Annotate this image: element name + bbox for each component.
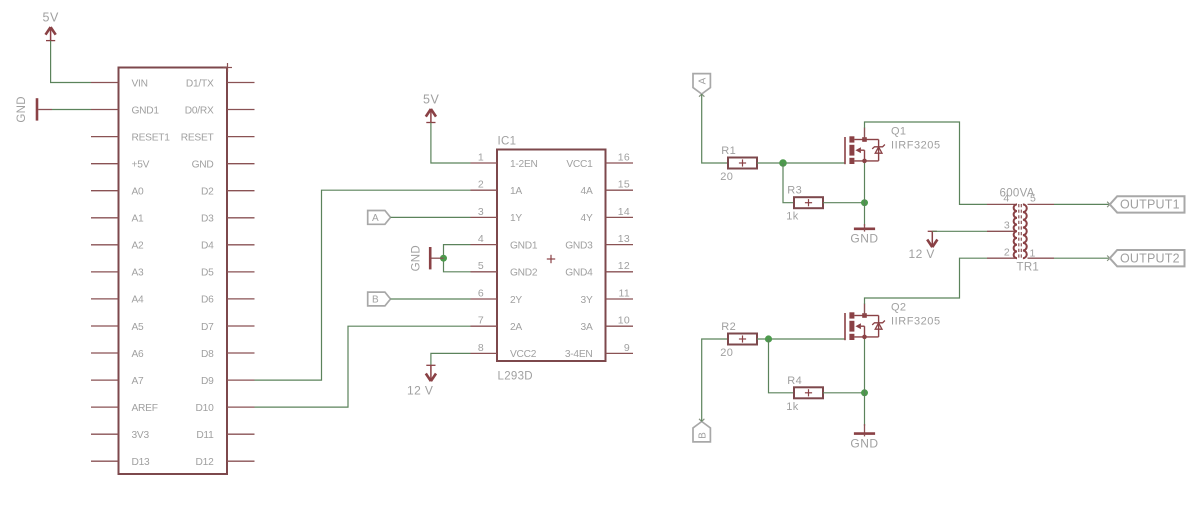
pin D9 stub bbox=[227, 379, 255, 381]
pin 16 stub bbox=[606, 162, 634, 164]
svg-text:B: B bbox=[372, 295, 379, 306]
transistor Q1 source link bbox=[854, 160, 878, 162]
svg-text:GND3: GND3 bbox=[565, 240, 593, 251]
svg-text:3Y: 3Y bbox=[581, 295, 593, 306]
junction (GND bracket) bbox=[440, 255, 447, 262]
svg-text:RESET1: RESET1 bbox=[132, 132, 171, 143]
svg-text:A0: A0 bbox=[132, 187, 145, 198]
wire B to 2Y bbox=[391, 298, 471, 300]
svg-text:600VA: 600VA bbox=[1000, 187, 1035, 199]
pin D11 stub bbox=[227, 433, 255, 435]
svg-text:4A: 4A bbox=[581, 186, 593, 197]
wire source Q1 down bbox=[864, 161, 866, 203]
svg-text:16: 16 bbox=[618, 151, 630, 163]
wire A to 1Y bbox=[391, 216, 471, 218]
wire GND1-GND2 bracket bbox=[444, 245, 471, 272]
svg-text:D12: D12 bbox=[196, 457, 215, 468]
pin D12 stub bbox=[227, 460, 255, 462]
pin D7 stub bbox=[227, 325, 255, 327]
transistor Q2 body arrow bbox=[855, 323, 861, 329]
svg-text:R3: R3 bbox=[787, 185, 802, 197]
svg-text:2: 2 bbox=[478, 179, 484, 191]
pin D13 stub bbox=[91, 460, 119, 462]
svg-text:VIN: VIN bbox=[132, 78, 148, 89]
junction R4/source/GND bbox=[861, 389, 868, 396]
svg-text:OUTPUT2: OUTPUT2 bbox=[1120, 252, 1180, 266]
wire junction to GND bbox=[864, 203, 866, 226]
wire 12V to TR pin3 bbox=[932, 230, 987, 232]
pin D0/RX stub bbox=[227, 109, 255, 111]
wire end cross OUTPUT1 bbox=[1107, 202, 1112, 207]
wire Q2 drain to TR pin2 bbox=[865, 258, 988, 304]
transformer pin 5 stub bbox=[1028, 203, 1055, 205]
svg-text:R4: R4 bbox=[787, 375, 802, 387]
svg-text:2: 2 bbox=[1004, 246, 1010, 258]
svg-text:D8: D8 bbox=[201, 349, 214, 360]
svg-text:1-2EN: 1-2EN bbox=[510, 159, 538, 170]
transistor Q1 drain link bbox=[854, 139, 864, 141]
svg-text:A4: A4 bbox=[132, 295, 145, 306]
svg-text:1A: 1A bbox=[510, 186, 522, 197]
svg-text:5: 5 bbox=[478, 260, 484, 272]
pin 9 stub bbox=[606, 352, 634, 354]
wire 5V to VIN bbox=[51, 41, 91, 83]
node A flag (top right) bbox=[693, 74, 710, 94]
node B flag (2Y) bbox=[368, 292, 391, 306]
pin 7 stub bbox=[471, 325, 498, 327]
svg-text:VCC2: VCC2 bbox=[510, 349, 537, 360]
pin A6 stub bbox=[91, 352, 119, 354]
pin 2 stub bbox=[471, 189, 498, 191]
svg-text:2A: 2A bbox=[510, 322, 522, 333]
wire B to R2 bbox=[702, 339, 728, 422]
Arduino module U$1 body bbox=[119, 68, 228, 475]
svg-text:3V3: 3V3 bbox=[132, 430, 150, 441]
svg-text:A3: A3 bbox=[132, 268, 145, 279]
pin D6 stub bbox=[227, 298, 255, 300]
svg-text:RESET: RESET bbox=[181, 132, 214, 143]
svg-text:D3: D3 bbox=[201, 214, 214, 225]
svg-text:2Y: 2Y bbox=[510, 295, 522, 306]
pin D2 stub bbox=[227, 190, 255, 192]
svg-text:A1: A1 bbox=[132, 214, 145, 225]
svg-text:14: 14 bbox=[618, 206, 630, 218]
pin A4 stub bbox=[91, 298, 119, 300]
node OUTPUT2 flag bbox=[1110, 250, 1185, 266]
pin 14 stub bbox=[606, 216, 634, 218]
pin A2 stub bbox=[91, 244, 119, 246]
IC1 origin cross bbox=[547, 258, 555, 260]
pin A3 stub bbox=[91, 271, 119, 273]
pin GND1 stub bbox=[91, 109, 119, 111]
svg-text:4Y: 4Y bbox=[581, 213, 593, 224]
pin 12 stub bbox=[606, 271, 634, 273]
transistor Q1 body diode bbox=[865, 139, 879, 141]
pin AREF stub bbox=[91, 406, 119, 408]
svg-text:D9: D9 bbox=[201, 376, 214, 387]
svg-text:GND: GND bbox=[192, 160, 214, 171]
Arduino origin cross bbox=[223, 67, 232, 69]
pin A5 stub bbox=[91, 325, 119, 327]
svg-text:A6: A6 bbox=[132, 349, 145, 360]
pin VIN stub bbox=[91, 82, 119, 84]
wire R1 to gate Q1 bbox=[757, 162, 845, 164]
svg-text:IC1: IC1 bbox=[498, 136, 517, 148]
svg-text:GND1: GND1 bbox=[132, 105, 160, 116]
transistor Q2 source link bbox=[854, 336, 878, 338]
pin +5V stub bbox=[91, 163, 119, 165]
junction R1/R3 bbox=[779, 159, 787, 167]
svg-text:IIRF3205: IIRF3205 bbox=[891, 316, 941, 328]
supply +12V symbol (TR1) bbox=[928, 230, 937, 232]
svg-text:GND2: GND2 bbox=[510, 268, 538, 279]
svg-text:AREF: AREF bbox=[132, 403, 158, 414]
svg-text:GND: GND bbox=[411, 245, 423, 271]
svg-text:R1: R1 bbox=[721, 145, 736, 157]
wire junction to GND (Q2) bbox=[864, 393, 866, 426]
svg-text:5V: 5V bbox=[423, 93, 439, 107]
supply +12V symbol (IC1) bbox=[426, 364, 435, 366]
svg-text:12 V: 12 V bbox=[407, 384, 433, 398]
svg-text:12 V: 12 V bbox=[909, 247, 935, 261]
wire Q1 drain to TR pin4 bbox=[865, 122, 988, 204]
svg-text:15: 15 bbox=[618, 179, 630, 191]
transformer TR1 core bbox=[1018, 204, 1020, 259]
wire GND to GND1 bbox=[38, 109, 52, 111]
junction R3/source/GND bbox=[861, 199, 868, 206]
pin 13 stub bbox=[606, 244, 634, 246]
op IC1 L293D body bbox=[497, 150, 606, 362]
junction R2/R4 bbox=[765, 335, 772, 342]
svg-text:6: 6 bbox=[478, 287, 484, 299]
pin 8 stub bbox=[471, 352, 498, 354]
wire source Q2 down bbox=[864, 337, 866, 393]
wire A to R1 bbox=[702, 94, 728, 163]
svg-text:8: 8 bbox=[478, 342, 484, 354]
pin 6 stub bbox=[471, 298, 498, 300]
pin A1 stub bbox=[91, 217, 119, 219]
svg-text:7: 7 bbox=[478, 315, 484, 327]
resistor R2 bbox=[728, 334, 757, 345]
transformer pin 1 stub bbox=[1028, 257, 1055, 259]
transformer TR1 primary winding bbox=[1014, 204, 1017, 258]
resistor R4 bbox=[794, 387, 823, 398]
pin D5 stub bbox=[227, 271, 255, 273]
svg-text:20: 20 bbox=[720, 347, 733, 359]
pin D4 stub bbox=[227, 244, 255, 246]
pin 3 stub bbox=[471, 216, 498, 218]
svg-text:D0/RX: D0/RX bbox=[185, 105, 214, 116]
svg-text:D11: D11 bbox=[196, 430, 214, 441]
svg-text:12: 12 bbox=[618, 260, 630, 272]
ground GND symbol (Q1) bbox=[854, 228, 875, 231]
pin GND stub bbox=[227, 163, 255, 165]
svg-text:R2: R2 bbox=[721, 321, 736, 333]
transistor Q1 drain stub bbox=[864, 128, 866, 140]
wire D10 to 2A bbox=[255, 326, 471, 407]
pin D10 stub bbox=[227, 406, 255, 408]
svg-text:3: 3 bbox=[478, 206, 484, 218]
svg-text:D5: D5 bbox=[201, 268, 214, 279]
pin D8 stub bbox=[227, 352, 255, 354]
svg-text:1Y: 1Y bbox=[510, 213, 522, 224]
svg-text:3: 3 bbox=[1004, 220, 1010, 232]
svg-text:D13: D13 bbox=[132, 457, 151, 468]
transistor Q2 body diode bbox=[865, 315, 879, 317]
wire TR pin5 to OUTPUT1 bbox=[1054, 203, 1110, 205]
ground GND symbol (IC1) bbox=[431, 257, 443, 259]
wire R4 to source junction bbox=[823, 392, 865, 394]
wire junction down to R3 bbox=[783, 163, 794, 203]
svg-text:GND1: GND1 bbox=[510, 240, 538, 251]
pin 11 stub bbox=[606, 298, 634, 300]
svg-text:1k: 1k bbox=[786, 211, 799, 223]
transistor Q1 body arrow bbox=[855, 147, 861, 153]
wire R2 to gate Q2 bbox=[757, 338, 845, 340]
svg-text:L293D: L293D bbox=[498, 371, 533, 383]
pin A0 stub bbox=[91, 190, 119, 192]
wire VCC2 to 12V bbox=[431, 353, 471, 365]
node OUTPUT1 flag bbox=[1110, 196, 1185, 212]
svg-text:20: 20 bbox=[720, 171, 733, 183]
svg-text:1: 1 bbox=[478, 151, 484, 163]
pin D1/TX stub bbox=[227, 82, 255, 84]
wire D9 to 1A bbox=[255, 190, 471, 380]
svg-text:OUTPUT1: OUTPUT1 bbox=[1120, 198, 1180, 212]
svg-text:1: 1 bbox=[1030, 247, 1036, 259]
svg-text:D7: D7 bbox=[201, 322, 214, 333]
pin RESET1 stub bbox=[91, 136, 119, 138]
transistor Q2 channel bars bbox=[849, 312, 854, 318]
pin 15 stub bbox=[606, 189, 634, 191]
pin RESET stub bbox=[227, 136, 255, 138]
svg-text:D4: D4 bbox=[201, 241, 214, 252]
pin A7 stub bbox=[91, 379, 119, 381]
svg-text:A2: A2 bbox=[132, 241, 145, 252]
wire R3 to source junction bbox=[823, 202, 865, 204]
svg-text:Q2: Q2 bbox=[891, 302, 906, 314]
svg-text:4: 4 bbox=[478, 233, 484, 245]
svg-text:A: A bbox=[697, 77, 708, 84]
wire 5V to 1-2EN bbox=[431, 123, 471, 163]
node A flag (1Y) bbox=[368, 211, 391, 225]
svg-text:GND: GND bbox=[850, 437, 878, 451]
pin 4 stub bbox=[471, 244, 498, 246]
transistor Q1 channel bars bbox=[849, 136, 854, 142]
svg-text:IIRF3205: IIRF3205 bbox=[891, 140, 941, 152]
svg-text:A5: A5 bbox=[132, 322, 145, 333]
resistor R1 bbox=[728, 158, 757, 169]
svg-text:GND: GND bbox=[16, 96, 28, 122]
wire TR pin1 to OUTPUT2 bbox=[1054, 257, 1110, 259]
node B flag (bottom right) bbox=[693, 422, 710, 442]
svg-text:B: B bbox=[697, 432, 708, 439]
pin 5 stub bbox=[471, 271, 498, 273]
transformer TR1 secondary winding bbox=[1023, 204, 1027, 258]
svg-text:A: A bbox=[372, 213, 379, 224]
svg-text:11: 11 bbox=[619, 287, 631, 299]
pin 1 stub bbox=[471, 162, 498, 164]
svg-text:D10: D10 bbox=[196, 403, 215, 414]
svg-text:1k: 1k bbox=[786, 401, 799, 413]
wire junction down to R4 bbox=[769, 339, 795, 393]
svg-text:VCC1: VCC1 bbox=[566, 159, 593, 170]
svg-text:Q1: Q1 bbox=[891, 126, 906, 138]
svg-text:9: 9 bbox=[624, 342, 630, 354]
ground GND symbol (Q2) bbox=[854, 432, 875, 435]
pin 3V3 stub bbox=[91, 433, 119, 435]
svg-text:GND4: GND4 bbox=[565, 268, 593, 279]
svg-text:D1/TX: D1/TX bbox=[186, 78, 214, 89]
svg-text:D2: D2 bbox=[201, 187, 214, 198]
wire end cross A flag bbox=[699, 91, 704, 96]
transistor Q2 drain link bbox=[854, 315, 864, 317]
svg-text:D6: D6 bbox=[201, 295, 214, 306]
transistor Q2 drain stub bbox=[864, 304, 866, 316]
svg-text:3-4EN: 3-4EN bbox=[565, 349, 593, 360]
ground GND symbol (arduino) bbox=[36, 98, 39, 120]
svg-text:5V: 5V bbox=[43, 11, 59, 25]
svg-text:+5V: +5V bbox=[132, 160, 150, 171]
pin D3 stub bbox=[227, 217, 255, 219]
svg-text:TR1: TR1 bbox=[1017, 262, 1040, 274]
svg-text:GND: GND bbox=[850, 232, 878, 246]
svg-text:10: 10 bbox=[618, 315, 630, 327]
wire end cross B flag bbox=[699, 419, 704, 424]
svg-text:3A: 3A bbox=[581, 322, 593, 333]
transistor Q1 gate line bbox=[844, 137, 846, 164]
resistor R3 bbox=[794, 197, 823, 208]
svg-text:A7: A7 bbox=[132, 376, 145, 387]
pin 10 stub bbox=[606, 325, 634, 327]
transistor Q2 gate line bbox=[844, 313, 846, 340]
wire end cross OUTPUT2 bbox=[1107, 256, 1112, 261]
svg-text:13: 13 bbox=[618, 233, 630, 245]
